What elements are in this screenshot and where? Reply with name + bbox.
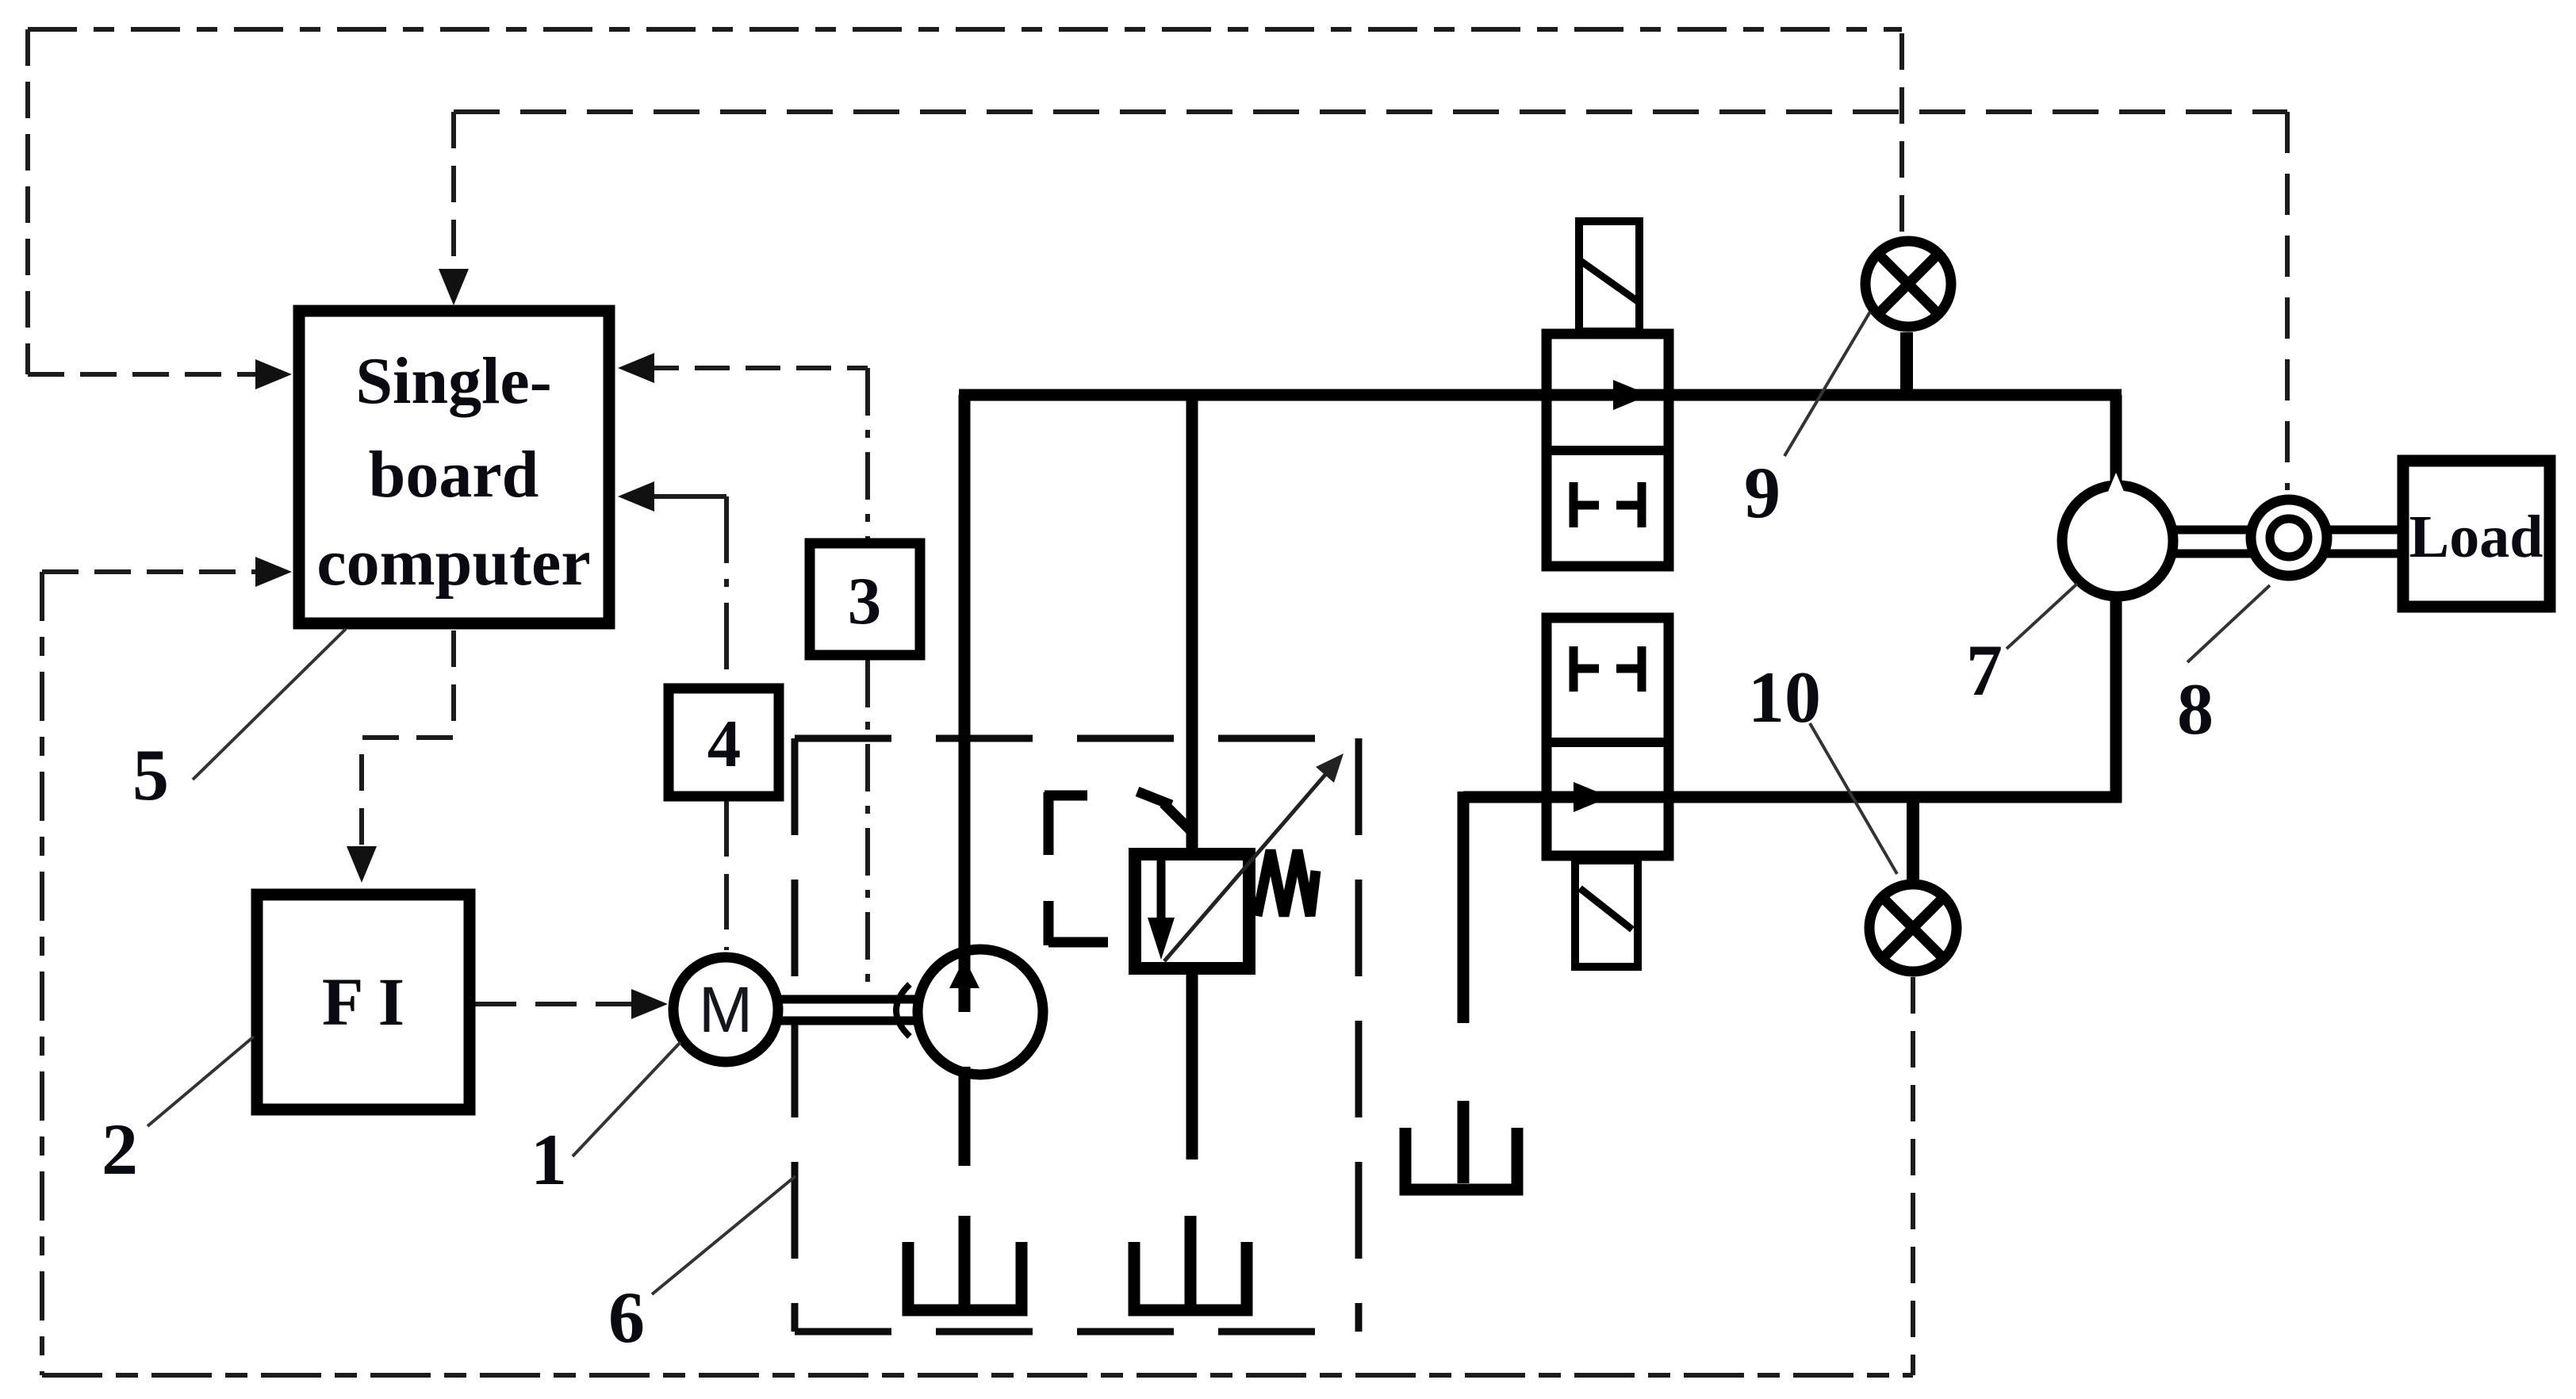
wire: main supply line [959, 389, 2122, 401]
gauge 10 (pressure) [1869, 797, 1957, 972]
tank 2 (relief outlet) [1134, 1216, 1247, 1310]
shaft motor 7 to coupling 8 [2173, 530, 2252, 554]
wire: return drop to tank 3 [1458, 791, 1470, 1023]
wire: dashed vertical from gauge 9 to top border [1899, 29, 1904, 232]
svg-text:8: 8 [2177, 669, 2214, 749]
svg-text:5: 5 [132, 734, 169, 815]
wire: thin solid from box 4 to computer right lower [618, 481, 726, 512]
coupling arc on shaft [896, 984, 910, 1037]
wire: dashed feedback into computer left upper [28, 359, 292, 389]
svg-text:6: 6 [608, 1277, 645, 1358]
shaft coupling 8 to load [2327, 530, 2405, 554]
svg-text:Load: Load [2409, 504, 2543, 570]
label 1 with leader [531, 1042, 680, 1200]
label 5 with leader [132, 629, 346, 815]
svg-text:F I: F I [322, 964, 404, 1040]
label 8 with leader [2177, 585, 2270, 749]
label 2 with leader [102, 1037, 254, 1190]
shaft M to pump [781, 999, 916, 1021]
tank 3 (return) [1405, 1101, 1517, 1190]
solenoid valve lower (return cut-off) body [1547, 618, 1669, 856]
relief valve pilot dashes [1045, 791, 1191, 945]
svg-text:3: 3 [848, 564, 882, 638]
gauge 9 (pressure) [1865, 241, 1951, 395]
solenoid (lower valve) [1575, 860, 1638, 967]
wire: dash-dot vertical from box 3 top [865, 368, 870, 539]
wire: dash-dot from box 3 to computer right upper [618, 353, 868, 383]
wire: dash-dot vertical from box 4 top [724, 496, 729, 684]
wire: dashed feedback from gauge 10, bottom border segment [42, 1373, 1913, 1378]
motor M (1) [673, 957, 778, 1062]
solenoid (upper valve) [1579, 221, 1639, 332]
wire: dashed feedback from gauge 9, top border segment [28, 27, 1902, 32]
coupling 8 (speed sensor) [2251, 500, 2327, 576]
hydraulic motor 7 [2062, 473, 2173, 596]
svg-text:computer: computer [316, 526, 590, 600]
wire: dash-dot from box 4 bottom to motor M top [724, 801, 729, 950]
pump (inside unit 6) [918, 949, 1043, 1075]
svg-text:M: M [699, 974, 753, 1046]
wire: dashed from computer bottom to FI box [347, 631, 454, 883]
wire: dashed vertical from gauge 10 down to bottom border [1911, 977, 1915, 1375]
computer box U5 [299, 311, 609, 623]
wire: dash-dot from box 3 bottom to pump shaft [865, 660, 870, 993]
wire: dashed drop from horizontal to coupling 8 [2285, 112, 2290, 490]
wire: pump suction line [959, 1067, 971, 1166]
svg-text:7: 7 [1966, 630, 2003, 711]
relief valve adjustment arrow [1164, 753, 1344, 961]
label 7 with leader [1966, 584, 2077, 711]
svg-text:Single-: Single- [355, 344, 551, 418]
enclosure box 6 (pump unit, dashed) [795, 738, 1359, 1332]
label 10 with leader [1748, 657, 1897, 874]
svg-text:9: 9 [1744, 452, 1781, 533]
wire: dashed feedback from gauge 10, left riser [40, 572, 44, 1375]
svg-text:board: board [369, 438, 539, 512]
relief valve (pilot operated) [1135, 854, 1249, 968]
wire: relief valve outlet [1186, 975, 1198, 1159]
wire: supply drop into motor 7 [2110, 395, 2122, 517]
wire: dashed feedback into computer left lower [42, 557, 292, 587]
svg-text:1: 1 [531, 1119, 567, 1200]
svg-text:2: 2 [102, 1109, 138, 1190]
label 9 with leader [1744, 312, 1870, 533]
wire: dashed feedback from gauge 9, left border segment [25, 29, 30, 374]
load box [2403, 461, 2550, 607]
wire: pump outlet riser [959, 395, 971, 1012]
solenoid valve upper (supply cut-off) body [1547, 334, 1669, 566]
wire: dashed feedback from coupling 8, horizontal segment [454, 109, 2287, 114]
wire: dashed from FI box to motor M [475, 989, 668, 1019]
wire: relief valve branch [1186, 395, 1198, 848]
wire: dashed drop into computer top [439, 112, 469, 305]
tank 1 (pump suction) [908, 1216, 1022, 1310]
wire: motor outlet to return line [1463, 601, 2122, 803]
box 3 (torque sensor) [810, 543, 920, 655]
box 4 (speed sensor) [669, 688, 779, 796]
label 6 with leader [608, 1176, 795, 1358]
relief valve spring [1257, 850, 1316, 916]
FI box (frequency inverter) [257, 895, 470, 1110]
svg-text:4: 4 [707, 707, 742, 781]
